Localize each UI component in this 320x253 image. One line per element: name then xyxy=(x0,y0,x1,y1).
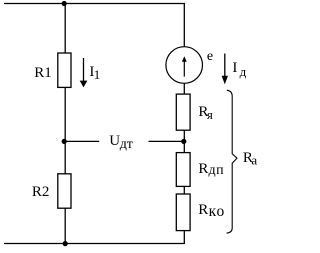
label Udt xyxy=(109,133,133,152)
svg-text:R: R xyxy=(198,161,208,177)
label I1 xyxy=(89,64,100,82)
wire source to Rya xyxy=(183,84,185,94)
resistor Rdp xyxy=(176,153,190,187)
label Ra xyxy=(243,150,258,168)
arrow I1 current xyxy=(80,58,88,87)
node left middle junction xyxy=(62,139,67,144)
node top junction xyxy=(62,1,67,6)
svg-text:дт: дт xyxy=(120,137,133,152)
label Rko xyxy=(198,202,225,220)
wire bottom horizontal xyxy=(4,243,185,245)
svg-text:1: 1 xyxy=(94,67,101,82)
wire middle left segment xyxy=(65,140,99,142)
svg-text:e: e xyxy=(207,49,213,64)
svg-text:I: I xyxy=(232,60,237,76)
wire Rko to bottom xyxy=(183,231,185,244)
label Rya xyxy=(198,104,213,122)
wire left vertical R1 to R2 xyxy=(64,88,66,174)
svg-text:дп: дп xyxy=(209,163,225,178)
svg-text:а: а xyxy=(251,152,257,167)
wire Rdp to Rko xyxy=(183,187,185,195)
wire right vertical from top to source xyxy=(183,4,185,47)
wire middle right segment xyxy=(149,140,185,142)
source e circle U1 xyxy=(166,47,203,84)
label Rdp xyxy=(198,161,224,178)
svg-text:д: д xyxy=(240,64,247,79)
arrow Id current xyxy=(222,54,228,85)
svg-text:я: я xyxy=(207,107,213,122)
label Id xyxy=(232,60,246,79)
wire top horizontal xyxy=(4,3,185,5)
wire left vertical R2 to bottom xyxy=(64,208,66,243)
wire left vertical top to R1 xyxy=(64,4,66,54)
svg-text:U: U xyxy=(109,133,120,149)
resistor R2 xyxy=(58,174,71,208)
source e internal arrow xyxy=(182,56,187,76)
svg-text:R2: R2 xyxy=(32,184,50,200)
svg-text:R: R xyxy=(198,202,208,218)
resistor Rya xyxy=(176,94,190,130)
resistor Rko xyxy=(176,194,190,231)
svg-text:ко: ко xyxy=(209,203,226,220)
node bottom junction xyxy=(63,241,68,246)
node right middle junction xyxy=(181,139,186,144)
brace Ra xyxy=(227,90,237,233)
svg-text:R1: R1 xyxy=(34,65,52,81)
resistor R1 xyxy=(58,53,71,87)
wire Rya to Rdp with junction xyxy=(183,130,185,153)
